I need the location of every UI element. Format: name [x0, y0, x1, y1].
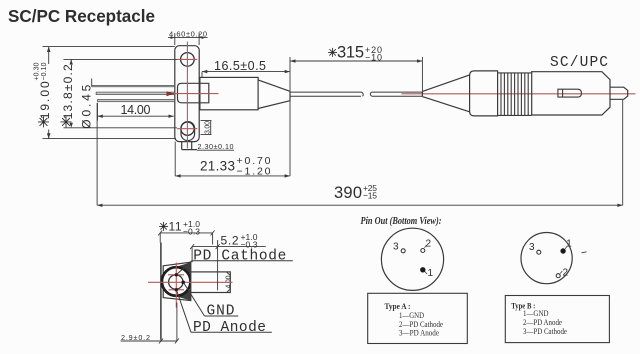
svg-text:GND: GND — [207, 304, 235, 320]
arrowheads 19.00 — [47, 47, 51, 52]
svg-text:−10: −10 — [365, 52, 382, 62]
svg-text:4.60±0.20: 4.60±0.20 — [169, 29, 207, 38]
legend box type A — [368, 293, 468, 343]
boot taper — [422, 75, 469, 112]
svg-text:390: 390 — [334, 184, 362, 202]
centerline detail horizontal — [148, 281, 233, 283]
dim 5.2 lines — [192, 240, 266, 290]
svg-text:Type A :: Type A : — [385, 301, 411, 311]
arrowheads 13.8 — [70, 59, 73, 64]
underline GND — [205, 315, 239, 317]
star mark 19.00 — [38, 116, 49, 127]
underline PD Cathode — [192, 260, 293, 262]
pin A label ticks — [425, 245, 428, 274]
svg-text:2.30±0.10: 2.30±0.10 — [198, 142, 234, 151]
svg-text:1: 1 — [428, 268, 434, 279]
svg-text:+0.30: +0.30 — [34, 62, 41, 80]
pin dot cathode — [175, 273, 178, 276]
boot body — [470, 71, 498, 116]
TO-can cap — [178, 83, 209, 103]
SC connector housing — [532, 72, 610, 115]
pin A1 — [420, 267, 425, 272]
svg-text:−15: −15 — [363, 190, 377, 200]
dim 4.00 ticks — [227, 272, 231, 292]
svg-text:PD Anode: PD Anode — [193, 320, 266, 336]
centerline cylinder — [167, 93, 219, 95]
svg-text:PD Cathode: PD Cathode — [193, 248, 286, 264]
latch window divider — [562, 89, 564, 97]
arrowheads 315 — [290, 59, 296, 62]
svg-text:1—GND: 1—GND — [399, 311, 424, 320]
star mark 11 — [159, 222, 168, 231]
TO-can inner circle — [169, 275, 183, 289]
star mark 13.8 — [61, 116, 72, 127]
flag corner fill top — [178, 262, 191, 274]
svg-text:16.5±0.5: 16.5±0.5 — [214, 59, 266, 73]
dim 390 lines — [97, 100, 623, 205]
arrowheads 21.33 — [175, 174, 180, 177]
pin B label ticks — [560, 246, 567, 274]
svg-text:5.2: 5.2 — [221, 233, 239, 247]
strain relief ribs — [501, 73, 528, 116]
pin dot gnd — [181, 281, 185, 285]
cable break marks — [362, 92, 372, 96]
svg-text:3—PD Cathode: 3—PD Cathode — [523, 327, 567, 336]
flag corner fill bottom — [178, 289, 191, 301]
leader arrow at pin root — [167, 91, 175, 96]
svg-text:2.9±0.2: 2.9±0.2 — [121, 333, 150, 342]
pinout circle type B — [521, 233, 572, 284]
ferrule — [610, 87, 628, 99]
tapered nose cone — [258, 80, 290, 109]
svg-text:SC/PC Receptacle: SC/PC Receptacle — [8, 6, 155, 26]
svg-text:−0.3: −0.3 — [241, 240, 258, 250]
svg-text:11: 11 — [169, 219, 182, 233]
pin B2 — [556, 274, 560, 278]
dim 16.5 lines — [202, 72, 290, 78]
pin dot anode — [175, 288, 178, 291]
centerline bottom hole — [177, 128, 197, 130]
svg-text:Ø0.45: Ø0.45 — [80, 84, 94, 128]
flag housing outline — [163, 262, 191, 300]
flange plate — [175, 46, 199, 142]
arrowheads 16.5 — [202, 70, 207, 73]
dim 11 ticks — [158, 230, 214, 235]
pinout circle type A — [381, 228, 443, 290]
crosshair anode pin — [169, 289, 185, 291]
svg-text:14.00: 14.00 — [121, 103, 151, 117]
pin B1 — [560, 248, 565, 253]
pin A2 — [421, 249, 425, 253]
dim 14.00 lines — [98, 103, 174, 121]
dim 2.30 underline — [197, 149, 234, 151]
dim 3.00 lines — [201, 121, 212, 135]
dim 315 lines — [290, 57, 422, 91]
crosshair cathode pin — [168, 274, 184, 276]
svg-text:3.00: 3.00 — [205, 121, 212, 134]
leader PD Cathode — [177, 261, 192, 275]
arrowheads 14.00 — [98, 115, 103, 118]
pin tip tick — [91, 79, 93, 87]
svg-text:Pin Out (Bottom View):: Pin Out (Bottom View): — [361, 216, 442, 227]
centerline detail vertical — [175, 263, 177, 308]
centerline flange vertical — [186, 42, 188, 149]
svg-text:1—GND: 1—GND — [523, 309, 549, 318]
star mark 315 — [328, 48, 337, 57]
dim 21.33 lines — [175, 101, 290, 176]
svg-text:13.8±0.2: 13.8±0.2 — [61, 64, 75, 119]
flange edge line (detail view) — [160, 243, 162, 340]
TO-can circle — [162, 267, 191, 296]
svg-text:21.33: 21.33 — [200, 159, 235, 174]
svg-text:−0.3: −0.3 — [183, 227, 200, 237]
dim 4.60 lines — [168, 33, 208, 45]
centerline top hole — [177, 58, 197, 60]
stray dash — [582, 252, 587, 253]
centerline cable-connector — [402, 93, 636, 95]
svg-text:315: 315 — [337, 44, 364, 62]
svg-text:3: 3 — [529, 242, 535, 253]
dim 2.9 ticks — [159, 339, 179, 344]
leader PD Anode — [177, 290, 192, 332]
pin A3 — [401, 249, 405, 253]
pin 3 lead — [98, 99, 175, 101]
svg-text:3—PD Anode: 3—PD Anode — [399, 329, 439, 338]
pin 2 lead — [96, 92, 175, 95]
receptacle cylinder body — [200, 77, 258, 109]
svg-text:19.00: 19.00 — [38, 81, 52, 119]
svg-text:−1.20: −1.20 — [237, 165, 271, 177]
dim 11 lines — [160, 233, 212, 245]
mounting hole bottom — [181, 122, 194, 135]
svg-text:−0.10: −0.10 — [41, 62, 48, 80]
dim 19.00 lines — [43, 47, 177, 139]
latch window — [558, 89, 582, 97]
pin B3 — [537, 250, 541, 254]
mounting slot — [181, 122, 195, 141]
underline PD Anode — [191, 331, 272, 333]
legend box type B — [505, 296, 609, 343]
strain relief outline — [498, 73, 532, 116]
dim 2.9 lines — [121, 303, 178, 342]
svg-text:2—PD Anode: 2—PD Anode — [523, 318, 562, 327]
mounting hole top — [181, 53, 195, 67]
pin 1 lead — [92, 85, 175, 86]
bottom tab — [182, 142, 197, 150]
dim 13.8 lines — [64, 59, 178, 127]
dim 5.2 ticks — [190, 244, 220, 249]
svg-text:3: 3 — [393, 242, 399, 253]
svg-text:2—PD Cathode: 2—PD Cathode — [399, 320, 443, 329]
arrowheads 4.60 — [171, 36, 175, 39]
svg-text:2: 2 — [426, 239, 432, 250]
arrowheads 390 — [97, 204, 102, 207]
leader GND — [184, 283, 205, 317]
fiber cable — [290, 92, 422, 96]
svg-text:1: 1 — [566, 238, 572, 249]
svg-text:2: 2 — [563, 268, 569, 279]
nose tube — [191, 272, 231, 293]
